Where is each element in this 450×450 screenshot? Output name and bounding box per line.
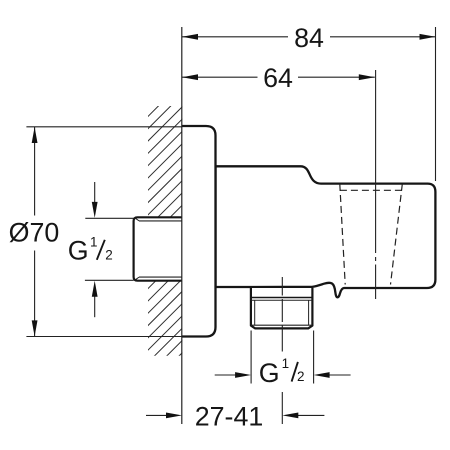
dimension 27-41: left arrowhead <box>166 413 182 419</box>
svg-text:G: G <box>259 358 280 388</box>
dimension G1/2 bottom: extension line right <box>313 331 315 384</box>
svg-text:27-41: 27-41 <box>195 402 264 432</box>
dimension D70: bottom arrowhead <box>32 320 38 336</box>
dimension 64: dimension line <box>182 76 258 78</box>
inlet thread G1/2 (in wall) <box>134 217 182 280</box>
outlet thread G1/2 (bottom boss) <box>251 288 313 328</box>
dimension 27-41: right arrow <box>297 414 324 416</box>
svg-text:2: 2 <box>105 247 113 262</box>
escutcheon flange <box>182 126 216 337</box>
wall face line <box>181 27 183 424</box>
dimension D70: top arrowhead <box>32 127 38 143</box>
svg-text:1: 1 <box>282 356 290 371</box>
dimension 84: dimension line <box>182 36 288 38</box>
dimension G1/2 left: extension line top <box>85 217 133 219</box>
holder socket hidden rim (top, dashed) <box>340 189 402 191</box>
svg-text:2: 2 <box>297 369 305 384</box>
dimension G1/2 bottom: left arrow <box>215 374 236 376</box>
dimension D70: extension line top <box>26 126 182 128</box>
svg-text:1: 1 <box>90 235 98 250</box>
dimension G1/2 left: top arrow <box>94 182 96 203</box>
holder socket hidden edge (right, dashed) <box>391 184 403 285</box>
holder socket hidden edge (left, dashed) <box>340 184 345 285</box>
svg-text:64: 64 <box>263 63 293 93</box>
outlet axis centre line <box>281 277 283 352</box>
dimension G1/2 left: extension line bottom <box>85 279 134 281</box>
dimension D70: extension line bottom <box>26 336 182 338</box>
dimension 64: left arrowhead <box>182 74 198 80</box>
dimension 84: right arrowhead <box>420 34 436 40</box>
body outline <box>216 166 436 297</box>
dimension G1/2 bottom: right arrow <box>329 374 351 376</box>
dimension 84: left arrowhead <box>182 34 198 40</box>
dimension G1/2 left: bottom arrow <box>94 296 96 317</box>
svg-text:Ø70: Ø70 <box>9 218 60 248</box>
dimension G1/2 bottom: label <box>259 356 305 388</box>
svg-text:84: 84 <box>294 23 324 53</box>
dimension 27-41: dimension line left <box>146 414 167 416</box>
dimension D70: dimension line <box>34 127 36 216</box>
dimension G1/2 bottom: extension line left <box>250 331 252 384</box>
holder socket centre line <box>375 184 377 300</box>
dimension 64: extension line (holder axis) <box>375 70 377 183</box>
dimension 64: right arrowhead <box>359 74 375 80</box>
wall hatching <box>0 100 435 360</box>
svg-text:G: G <box>68 235 89 265</box>
dimension 84: extension line right <box>435 27 437 181</box>
dimension G1/2 left: label <box>68 235 113 266</box>
